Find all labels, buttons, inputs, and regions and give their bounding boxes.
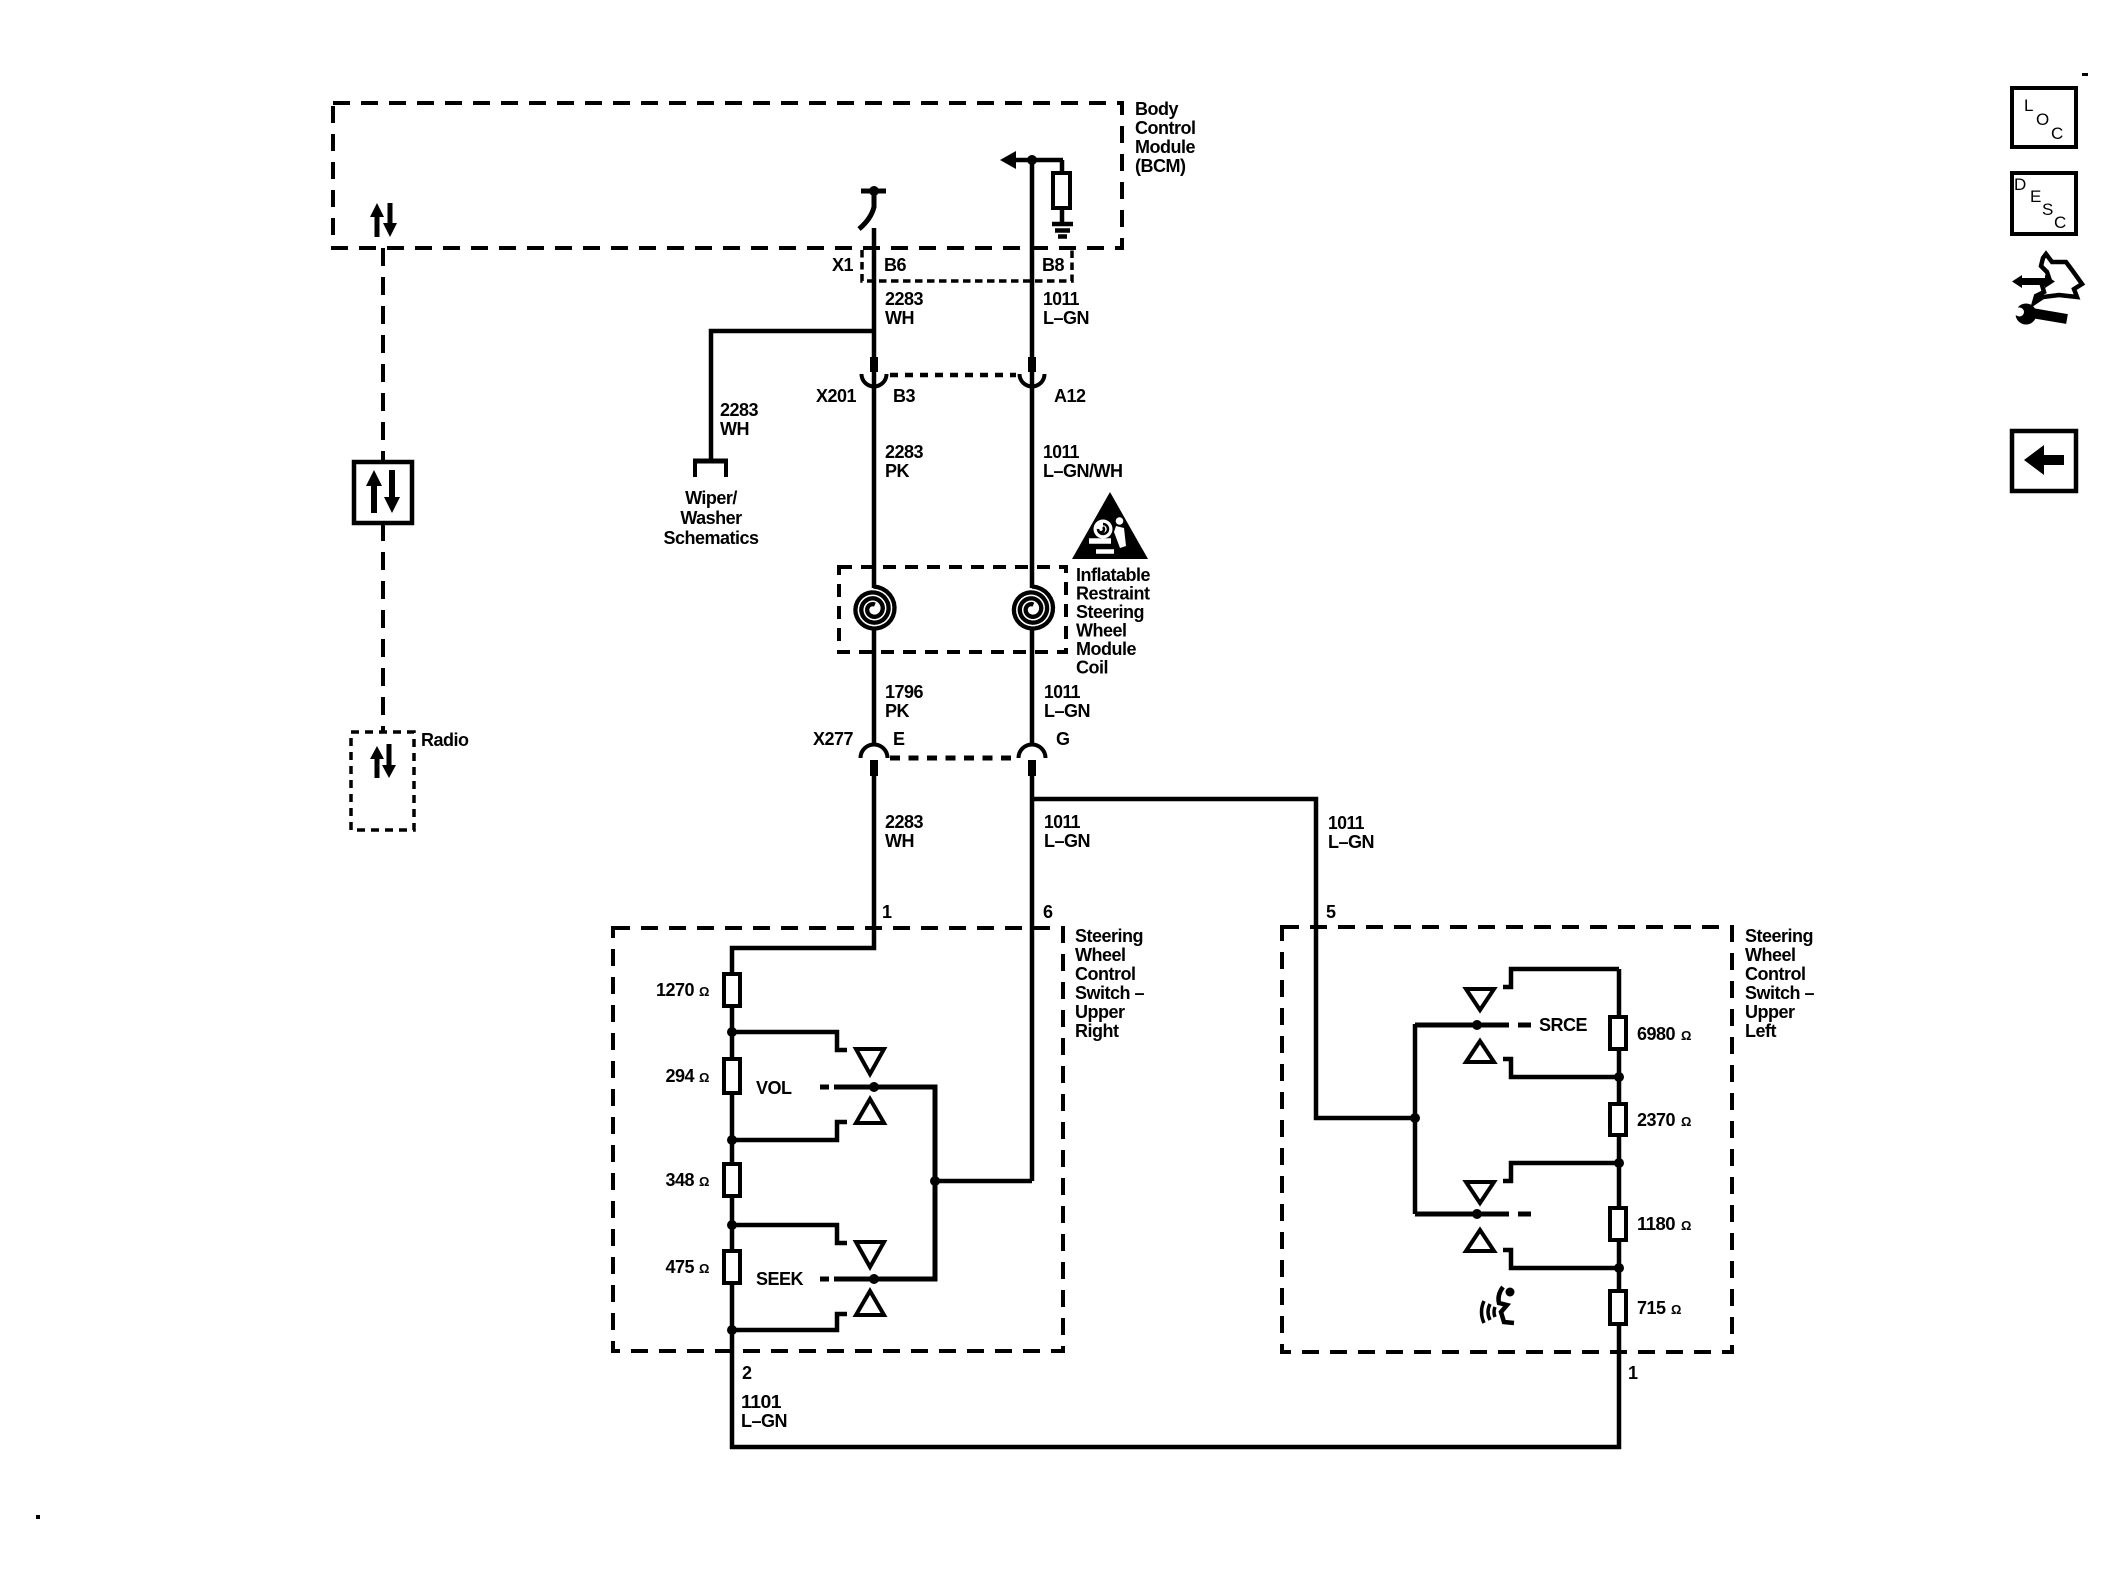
svg-text:VOL: VOL: [756, 1078, 792, 1098]
svg-text:Switch –: Switch –: [1745, 983, 1815, 1003]
svg-text:6980: 6980: [1637, 1024, 1676, 1044]
svg-text:Upper: Upper: [1745, 1002, 1795, 1022]
svg-text:Wheel: Wheel: [1745, 945, 1796, 965]
svg-text:2: 2: [742, 1363, 752, 1383]
svg-text:Steering: Steering: [1745, 926, 1813, 946]
svg-text:C: C: [2054, 213, 2066, 232]
svg-text:G: G: [1056, 729, 1070, 749]
svg-text:Ω: Ω: [699, 1261, 709, 1276]
svg-text:294: 294: [665, 1066, 694, 1086]
svg-text:Ω: Ω: [1671, 1302, 1681, 1317]
svg-text:715: 715: [1637, 1298, 1666, 1318]
svg-text:1011: 1011: [1043, 442, 1079, 462]
svg-text:1011: 1011: [1044, 682, 1080, 702]
svg-text:2283: 2283: [720, 400, 759, 420]
svg-text:1180: 1180: [1637, 1214, 1675, 1234]
svg-text:O: O: [2036, 110, 2049, 129]
svg-text:2283: 2283: [885, 812, 924, 832]
svg-text:WH: WH: [720, 419, 749, 439]
svg-text:Coil: Coil: [1076, 658, 1108, 678]
svg-text:1270: 1270: [656, 980, 695, 1000]
svg-text:SRCE: SRCE: [1539, 1015, 1588, 1035]
svg-text:L–GN: L–GN: [1044, 701, 1090, 721]
svg-text:L–GN/WH: L–GN/WH: [1043, 461, 1123, 481]
svg-text:Inflatable: Inflatable: [1076, 565, 1151, 585]
svg-text:2283: 2283: [885, 289, 924, 309]
svg-text:Ω: Ω: [699, 1174, 709, 1189]
svg-text:5: 5: [1326, 902, 1336, 922]
svg-text:1: 1: [1628, 1363, 1638, 1383]
svg-text:1101: 1101: [741, 1392, 782, 1412]
svg-text:WH: WH: [885, 308, 914, 328]
svg-text:Body: Body: [1135, 99, 1178, 119]
svg-text:475: 475: [665, 1257, 694, 1277]
svg-text:1796: 1796: [885, 682, 924, 702]
svg-text:Right: Right: [1075, 1021, 1119, 1041]
svg-text:2283: 2283: [885, 442, 924, 462]
svg-text:1: 1: [882, 902, 892, 922]
svg-text:6: 6: [1043, 902, 1053, 922]
svg-text:WH: WH: [885, 831, 914, 851]
svg-text:Wheel: Wheel: [1076, 621, 1127, 641]
svg-text:Steering: Steering: [1076, 602, 1144, 622]
svg-text:PK: PK: [885, 461, 910, 481]
svg-text:SEEK: SEEK: [756, 1269, 804, 1289]
svg-text:L: L: [2024, 96, 2033, 115]
svg-text:348: 348: [665, 1170, 694, 1190]
svg-text:2370: 2370: [1637, 1110, 1676, 1130]
svg-text:Ω: Ω: [699, 984, 709, 999]
svg-text:1011: 1011: [1044, 812, 1080, 832]
svg-text:Left: Left: [1745, 1021, 1777, 1041]
svg-text:(BCM): (BCM): [1135, 156, 1186, 176]
svg-text:E: E: [2030, 187, 2041, 206]
svg-text:X201: X201: [816, 386, 857, 406]
svg-text:Ω: Ω: [1681, 1218, 1691, 1233]
svg-text:S: S: [2042, 200, 2053, 219]
svg-text:C: C: [2051, 124, 2063, 143]
svg-text:X1: X1: [832, 255, 854, 275]
svg-text:1011: 1011: [1328, 813, 1364, 833]
svg-text:Control: Control: [1135, 118, 1195, 138]
svg-text:Ω: Ω: [1681, 1114, 1691, 1129]
svg-text:L–GN: L–GN: [741, 1411, 787, 1431]
svg-text:Switch –: Switch –: [1075, 983, 1145, 1003]
svg-text:Module: Module: [1135, 137, 1195, 157]
svg-text:D: D: [2014, 175, 2026, 194]
svg-text:1011: 1011: [1043, 289, 1079, 309]
svg-text:Ω: Ω: [699, 1070, 709, 1085]
svg-text:L–GN: L–GN: [1043, 308, 1089, 328]
svg-text:A12: A12: [1054, 386, 1086, 406]
svg-text:B6: B6: [884, 255, 906, 275]
svg-text:Module: Module: [1076, 639, 1136, 659]
svg-text:PK: PK: [885, 701, 910, 721]
svg-text:Control: Control: [1745, 964, 1805, 984]
svg-text:Upper: Upper: [1075, 1002, 1125, 1022]
svg-text:Wiper/: Wiper/: [685, 488, 737, 508]
svg-text:L–GN: L–GN: [1328, 832, 1374, 852]
svg-text:Washer: Washer: [680, 508, 742, 528]
svg-text:Steering: Steering: [1075, 926, 1143, 946]
svg-text:B3: B3: [893, 386, 915, 406]
svg-text:Ω: Ω: [1681, 1028, 1691, 1043]
svg-text:Schematics: Schematics: [663, 528, 759, 548]
svg-text:X277: X277: [813, 729, 854, 749]
svg-text:L–GN: L–GN: [1044, 831, 1090, 851]
svg-text:Control: Control: [1075, 964, 1135, 984]
svg-text:Restraint: Restraint: [1076, 584, 1150, 604]
svg-text:B8: B8: [1042, 255, 1064, 275]
svg-text:Wheel: Wheel: [1075, 945, 1126, 965]
svg-text:E: E: [893, 729, 905, 749]
svg-text:Radio: Radio: [421, 730, 469, 750]
